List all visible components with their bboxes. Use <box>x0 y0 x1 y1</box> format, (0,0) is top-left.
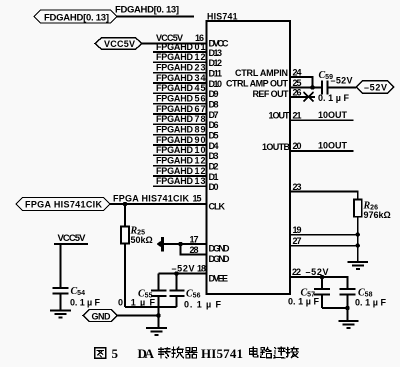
IC U1 HI5741 outline <box>207 21 291 294</box>
svg-text:D4: D4 <box>209 141 219 151</box>
svg-text:–52V: –52V <box>331 76 353 86</box>
svg-text:D5: D5 <box>209 131 219 141</box>
svg-text:89: 89 <box>195 124 206 134</box>
net label 10OUT <box>318 110 348 120</box>
pin label D13 <box>209 48 223 58</box>
capacitor C57 0.1uF <box>288 277 330 308</box>
svg-text:10: 10 <box>195 145 206 155</box>
pin label D8 <box>209 100 219 110</box>
svg-text:D11: D11 <box>209 69 223 79</box>
power tag -52V <box>356 81 394 94</box>
svg-text:D12: D12 <box>209 58 223 68</box>
wire CLK to R25 <box>124 204 126 227</box>
svg-text:0. 1 µ F: 0. 1 µ F <box>288 297 320 307</box>
wire pin23 to R26 <box>290 182 358 200</box>
svg-text:FPGAHD: FPGAHD <box>156 94 194 104</box>
wire pin25 CTRL AMP OUT <box>290 78 321 88</box>
wire pin28 DGND <box>181 244 207 255</box>
value label C59 0.1uF <box>318 93 350 103</box>
svg-text:56: 56 <box>195 94 206 104</box>
svg-text:DA: DA <box>138 346 155 361</box>
svg-text:10OUT: 10OUT <box>318 140 348 150</box>
wire data pin FPGAHD row 8 to D5 <box>153 124 207 134</box>
svg-text:D9: D9 <box>209 89 219 99</box>
wire C55 stem to ground <box>158 316 160 328</box>
pin label D11 <box>209 69 223 79</box>
svg-text:CTRL AMPIN: CTRL AMPIN <box>235 68 288 78</box>
wire pin19 <box>290 225 358 235</box>
caption 转 <box>159 348 171 359</box>
pin label 1OUT <box>269 111 291 121</box>
wire pin24 CTRL AMPIN <box>290 67 313 87</box>
wire data pin FPGAHD row 0 to D13 <box>153 42 207 52</box>
caption text HI5741 <box>201 346 243 361</box>
svg-text:15: 15 <box>193 194 202 204</box>
svg-text:FPGAHD: FPGAHD <box>156 104 194 114</box>
node junction pin27 <box>356 243 360 247</box>
svg-text:HIS741: HIS741 <box>207 11 238 21</box>
svg-text:23: 23 <box>293 182 302 192</box>
net label FDGAHD[0..13] <box>115 5 179 16</box>
pin label D5 <box>209 131 219 141</box>
svg-text:D8: D8 <box>209 100 219 110</box>
svg-text:0. 1 µ F: 0. 1 µ F <box>70 298 101 308</box>
wire data pin FPGAHD row 10 to D3 <box>153 145 207 155</box>
svg-text:FPGAHD: FPGAHD <box>156 155 194 165</box>
svg-text:FPGAHD: FPGAHD <box>156 176 194 186</box>
resistor R25 50k <box>121 226 153 245</box>
wire data pin FPGAHD row 6 to D7 <box>153 104 207 114</box>
svg-text:12: 12 <box>195 155 206 165</box>
svg-text:FPGAHD: FPGAHD <box>156 42 194 52</box>
resistor R26 976k <box>354 200 391 220</box>
svg-text:1OUT: 1OUT <box>269 111 291 121</box>
ground symbol under C54 <box>50 311 71 318</box>
svg-text:DGND: DGND <box>209 244 231 254</box>
wire pin18 DVEE (-52V) <box>159 264 207 274</box>
wire data pin FPGAHD row 4 to D9 <box>153 83 207 93</box>
svg-text:67: 67 <box>195 104 206 114</box>
wire R26 to ground <box>357 217 359 262</box>
svg-text:22: 22 <box>292 267 301 277</box>
svg-text:976kΩ: 976kΩ <box>364 210 391 220</box>
svg-text:13: 13 <box>195 176 206 186</box>
power tap arrow DGND <box>157 237 164 252</box>
node junction DGND pins <box>178 242 182 246</box>
pin label CLK <box>209 201 226 211</box>
power label VCC5V (bypass) <box>54 233 88 244</box>
svg-text:FPGAHD: FPGAHD <box>156 83 194 93</box>
net label 10OUT (2) <box>318 140 348 150</box>
svg-text:19: 19 <box>293 225 302 235</box>
svg-text:FPGAHD: FPGAHD <box>156 145 194 155</box>
wire ground rail C57/C58 <box>322 307 348 309</box>
svg-text:21: 21 <box>293 110 302 120</box>
svg-text:34: 34 <box>195 73 206 83</box>
wire pin16 DVCC from VCC5V tag <box>142 33 207 44</box>
caption 接 <box>286 347 298 358</box>
svg-text:DGND: DGND <box>209 254 231 264</box>
pin label D7 <box>209 110 219 120</box>
pin label D9 <box>209 89 219 99</box>
svg-text:D10: D10 <box>209 79 223 89</box>
net tag FPGA_HIS741CIK <box>16 198 110 211</box>
wire data pin FPGAHD row 9 to D4 <box>153 135 207 145</box>
wire GND tag to junction <box>118 315 159 317</box>
svg-text:26: 26 <box>293 88 302 98</box>
capacitor C54 0.1uF <box>53 286 101 310</box>
capacitor C59 0.1uF (series) <box>319 70 334 95</box>
pin label D12 <box>209 58 223 68</box>
wire stem to ground <box>347 308 349 321</box>
pin label D3 <box>209 151 219 161</box>
svg-text:5: 5 <box>112 346 119 361</box>
pin label 1OUTB <box>262 142 291 152</box>
wire pin26 REF OUT (no connect) <box>290 88 315 98</box>
IC label HIS741 <box>207 11 238 21</box>
wire ground rail bottom-left <box>125 306 177 308</box>
svg-text:–52V: –52V <box>306 267 329 277</box>
wire data pin FPGAHD row 3 to D10 <box>153 73 207 83</box>
svg-text:01: 01 <box>195 42 206 52</box>
svg-text:12: 12 <box>195 52 206 62</box>
caption 换 <box>172 347 184 358</box>
net tag GND <box>83 310 118 322</box>
svg-text:VCC5V: VCC5V <box>58 233 87 244</box>
wire pin17 DGND <box>163 235 207 245</box>
capacitor C55 0.1uF <box>118 274 167 316</box>
pin label D4 <box>209 141 219 151</box>
pin label DVCC <box>209 39 230 49</box>
svg-text:1OUTB: 1OUTB <box>262 142 291 152</box>
svg-text:FPGAHD: FPGAHD <box>156 52 194 62</box>
svg-text:D13: D13 <box>209 48 223 58</box>
capacitor C56 0.1uF <box>170 274 222 310</box>
node junction pin24/25 <box>310 85 314 89</box>
wire pin27 <box>290 236 358 246</box>
svg-text:20: 20 <box>293 141 302 151</box>
node junction CLK/R25 <box>123 202 127 206</box>
svg-text:CTRL AMP OUT: CTRL AMP OUT <box>226 79 289 89</box>
node junction GND tag <box>156 313 160 317</box>
wire pin20 1OUTB <box>290 141 354 151</box>
svg-text:D2: D2 <box>209 162 219 172</box>
node junction pin19 <box>356 232 360 236</box>
svg-text:FPGAHD: FPGAHD <box>156 114 194 124</box>
svg-text:0. 1 µ F: 0. 1 µ F <box>184 300 222 310</box>
node junction DVEE/C56 <box>174 271 178 275</box>
svg-text:HI5741: HI5741 <box>201 346 243 361</box>
svg-text:24: 24 <box>293 67 302 77</box>
svg-text:10OUT: 10OUT <box>318 110 348 120</box>
svg-text:FDGAHD[0. 13]: FDGAHD[0. 13] <box>115 5 179 16</box>
wire VCC5V to C54 <box>60 244 62 288</box>
svg-text:28: 28 <box>190 245 199 255</box>
pin label DVEE <box>209 273 229 283</box>
svg-text:17: 17 <box>190 235 199 245</box>
ground symbol under C57/C58 <box>339 321 359 328</box>
wire data pin FPGAHD row 1 to D12 <box>153 52 207 62</box>
ground symbol under R26 <box>348 262 369 269</box>
pin label D0 <box>209 182 219 192</box>
wire data pin FPGAHD row 11 to D2 <box>153 155 207 165</box>
svg-text:0. 1 µ F: 0. 1 µ F <box>118 298 156 308</box>
svg-text:0. 1 µ F: 0. 1 µ F <box>355 298 387 308</box>
wire data pin FPGAHD row 13 to D0 <box>153 176 207 186</box>
caption 连 <box>274 347 285 358</box>
wire bus FDGAHD stub <box>117 16 194 18</box>
caption 图 <box>95 348 106 359</box>
svg-text:78: 78 <box>195 114 206 124</box>
svg-text:FDGAHD[0. 13]: FDGAHD[0. 13] <box>44 13 109 24</box>
wire R25 to ground rail <box>124 244 126 308</box>
svg-text:23: 23 <box>195 63 206 73</box>
wire data pin FPGAHD row 12 to D1 <box>153 166 207 176</box>
svg-text:0. 1 µ F: 0. 1 µ F <box>318 93 350 103</box>
svg-text:VCC5V: VCC5V <box>104 39 135 49</box>
svg-text:FPGAHD: FPGAHD <box>156 63 194 73</box>
wire C59 to -52V tag <box>328 76 357 88</box>
svg-text:FPGAHD: FPGAHD <box>156 124 194 134</box>
caption 电 <box>250 347 258 357</box>
svg-text:–52V: –52V <box>364 83 387 93</box>
wire data pin FPGAHD row 2 to D11 <box>153 63 207 73</box>
caption text 5 <box>112 346 119 361</box>
svg-text:FPGA HIS741CIK: FPGA HIS741CIK <box>25 200 103 210</box>
svg-text:FPGAHD: FPGAHD <box>156 166 194 176</box>
pin label D10 <box>209 79 223 89</box>
svg-text:50kΩ: 50kΩ <box>131 235 153 245</box>
pin label D6 <box>209 120 219 130</box>
node junction C57 <box>320 275 324 279</box>
no-connect X on pin26 <box>304 92 314 102</box>
power tag VCC5V <box>95 38 142 50</box>
svg-text:27: 27 <box>293 236 302 246</box>
svg-text:FPGAHD: FPGAHD <box>156 73 194 83</box>
svg-text:DVEE: DVEE <box>209 273 229 283</box>
svg-text:D3: D3 <box>209 151 219 161</box>
wire data pin FPGAHD row 7 to D6 <box>153 114 207 124</box>
pin label DGND <box>209 244 231 254</box>
svg-text:D1: D1 <box>209 172 219 182</box>
wire pin15 CLK <box>110 194 207 204</box>
svg-text:D6: D6 <box>209 120 219 130</box>
pin label D2 <box>209 162 219 172</box>
pin label REF OUT <box>253 89 290 99</box>
svg-text:CLK: CLK <box>209 201 226 211</box>
net tag FDGAHD[0..13] <box>34 10 117 24</box>
pin label CTRL AMPIN <box>235 68 288 78</box>
svg-text:18: 18 <box>197 264 206 274</box>
node junction rail/ground stem <box>345 306 349 310</box>
capacitor C58 0.1uF <box>340 288 387 309</box>
pin label DGND (2) <box>209 254 231 264</box>
wire pin21 1OUT <box>290 110 354 120</box>
svg-text:12: 12 <box>195 166 206 176</box>
svg-text:REF OUT: REF OUT <box>253 89 290 99</box>
svg-text:90: 90 <box>195 135 206 145</box>
caption 路 <box>261 347 272 358</box>
wire data pin FPGAHD row 5 to D8 <box>153 94 207 104</box>
caption 器 <box>186 348 198 359</box>
svg-text:FPGAHD: FPGAHD <box>156 135 194 145</box>
svg-text:D7: D7 <box>209 110 219 120</box>
svg-text:D0: D0 <box>209 182 219 192</box>
wire pin22 -52V <box>290 267 348 288</box>
svg-text:25: 25 <box>293 78 302 88</box>
svg-text:GND: GND <box>92 311 112 321</box>
pin label D1 <box>209 172 219 182</box>
caption text DA <box>138 346 155 361</box>
svg-text:45: 45 <box>195 83 206 93</box>
ground symbol bottom-left <box>146 328 167 335</box>
pin label CTRL AMP OUT <box>226 79 289 89</box>
